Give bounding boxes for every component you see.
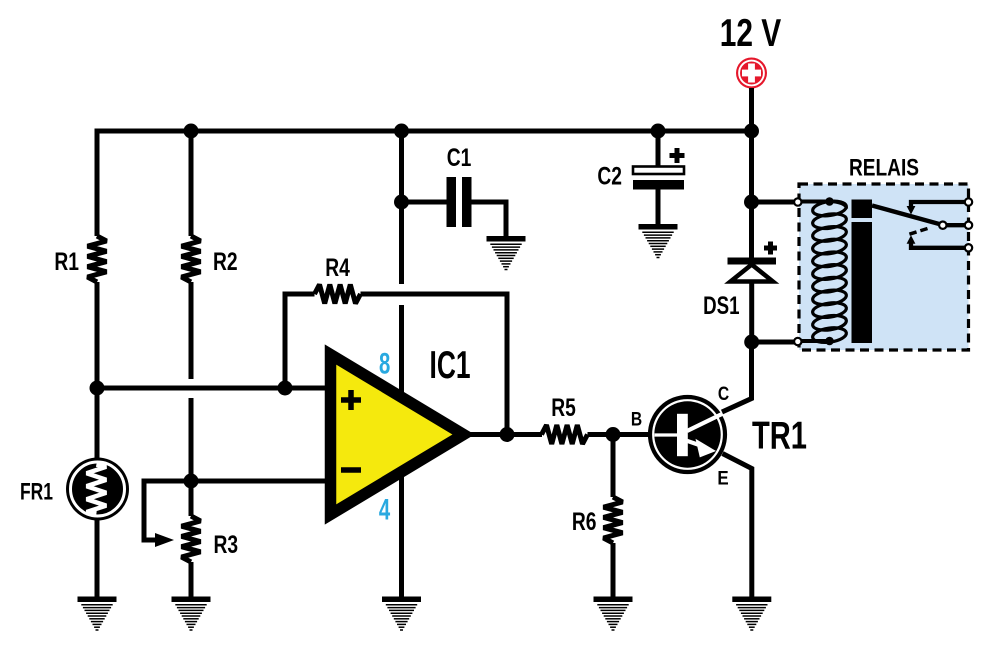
node junction rail/12V [744,124,759,139]
relay coil top dot [825,197,834,206]
svg-text:R1: R1 [54,248,79,276]
wire FR1 bottom lead [95,519,100,597]
ground G3 [487,236,526,270]
capacitor C1 [447,177,472,227]
node junction R2 top [184,124,199,139]
wire C2 top lead [656,131,661,167]
node junction R4/+input [278,381,293,396]
ground G7 [639,224,678,258]
wire R1 top lead [95,129,100,237]
wire 12V vertical [749,88,754,258]
relay box RELAIS [799,184,969,350]
diode DS1 [728,242,778,282]
svg-text:12 V: 12 V [720,12,782,55]
wire DS1 bottom lead [749,282,754,345]
node junction pin8 rail [394,124,409,139]
relay terminal top-left [794,198,801,205]
svg-text:E: E [717,468,728,490]
wire C2 bottom lead [656,190,661,226]
wire R1 bottom lead [95,282,100,459]
wire C1 left lead [402,200,448,205]
wire R2 bottom lead upper [189,282,194,379]
svg-text:B: B [631,409,642,431]
svg-text:R3: R3 [214,531,239,559]
node junction collector/relay [744,335,759,350]
wire inverting input [191,479,330,484]
svg-text:C1: C1 [447,144,472,172]
svg-text:4: 4 [379,494,391,527]
relay armature [872,206,941,225]
node junction C2 [651,124,666,139]
relay pivot [939,222,946,229]
wire R4 right to output [361,294,508,435]
svg-text:FR1: FR1 [20,479,53,506]
wire R2 top lead [189,131,194,236]
node junction R3 top [184,474,199,489]
ground G5 [594,597,633,631]
wire emitter stub [723,454,752,598]
svg-text:TR1: TR1 [752,415,807,458]
resistor R5 [542,425,588,444]
node junction C1 tap [394,195,409,210]
photoresistor FR1 [66,458,129,521]
wire top rail [95,129,752,134]
relay terminal NC [965,198,972,205]
wire noninverting input [97,386,330,391]
relay common line [945,223,967,227]
wire R6 bottom lead [611,543,616,597]
resistor R4 [315,285,361,304]
wire IC1 pin 8 upper [399,131,404,284]
supply terminal 12V [736,58,767,89]
relay core [852,200,873,344]
potentiometer R3 [182,516,201,562]
capacitor C2 [633,148,685,190]
wire IC1 pin 4 [399,473,404,597]
transistor TR1 [650,397,725,472]
svg-text:8: 8 [379,347,390,380]
ground G4 [382,597,421,631]
svg-text:DS1: DS1 [703,292,739,320]
ground G1 [78,597,117,631]
svg-text:R5: R5 [551,394,576,422]
wire collector stub [722,342,752,412]
relay terminal NO [965,244,972,251]
relay terminal bottom-left [794,338,801,345]
node junction base [606,427,621,442]
ground G6 [732,597,771,631]
relay alternate throw dashed [909,229,928,235]
node junction R1/+input [90,381,105,396]
wire relay top feed [752,200,795,205]
wire R6 top lead [611,435,616,498]
wire R3 bottom lead [189,562,194,597]
relay terminal common [965,222,972,229]
svg-text:C2: C2 [597,163,622,191]
wire R5 to base [588,432,651,437]
relay coil bottom dot [825,337,834,346]
wire R3 wiper hook [144,481,191,540]
wire C1 right lead [472,202,507,237]
wire R3 top lead [189,481,194,516]
wire R2 bottom lead lower [189,398,194,481]
op-amp IC1 [331,355,464,515]
resistor R1 [88,236,107,282]
relay NC contact [907,202,967,215]
node junction relay top [744,195,759,210]
wire relay bottom feed [752,340,794,345]
svg-text:C: C [718,383,729,405]
resistor R2 [182,236,201,282]
ground G2 [172,597,211,631]
R3 wiper arrowhead [155,533,174,547]
svg-text:RELAIS: RELAIS [849,155,919,182]
resistor R6 [604,497,623,543]
node junction output [500,427,515,442]
wire R4 feedback loop [285,294,315,388]
svg-text:R2: R2 [213,248,238,276]
svg-text:IC1: IC1 [430,344,471,387]
wire op-amp output [470,432,542,437]
relay NO contact [907,235,967,248]
relay coil [800,199,847,344]
wire IC1 pin 8 lower [399,305,404,397]
svg-text:R6: R6 [572,508,597,536]
svg-text:R4: R4 [325,254,350,282]
